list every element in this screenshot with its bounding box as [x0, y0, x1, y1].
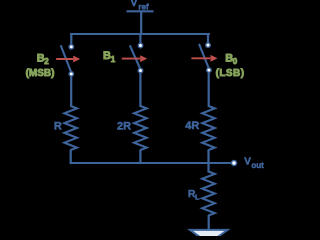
- switch S1 blade: [130, 45, 140, 68]
- label B2: [37, 52, 50, 66]
- wire output line: [70, 162, 231, 164]
- resistor 2R: [134, 106, 147, 150]
- switch S0 top contact: [206, 43, 210, 47]
- svg-text:0: 0: [233, 57, 238, 66]
- resistor R: [64, 106, 77, 150]
- wire rail stub to switch B1: [139, 33, 141, 43]
- wire resistor R to output line: [70, 150, 72, 165]
- switch S0 bottom contact: [207, 68, 211, 72]
- wire top rail: [70, 33, 210, 35]
- arrow S1 actuation: [122, 55, 147, 62]
- wire output line to resistor RL: [207, 162, 209, 172]
- svg-text:ref: ref: [138, 2, 149, 11]
- svg-text:4R: 4R: [185, 120, 199, 132]
- wire switch B2 to resistor R: [70, 76, 72, 107]
- svg-text:V: V: [244, 157, 251, 168]
- svg-text:L: L: [195, 193, 200, 202]
- svg-text:(LSB): (LSB): [216, 68, 245, 79]
- wire Vref bar to top rail: [140, 11, 142, 34]
- svg-text:B: B: [103, 50, 111, 62]
- svg-text:1: 1: [111, 55, 116, 64]
- wire switch B0 to resistor 4R: [208, 72, 210, 107]
- svg-text:(MSB): (MSB): [26, 68, 55, 79]
- svg-text:out: out: [251, 161, 264, 170]
- label B0: [225, 52, 238, 66]
- wire resistor RL to ground: [208, 215, 210, 231]
- label B1: [103, 50, 116, 64]
- switch S1 top contact: [138, 43, 142, 47]
- switch S2 blade: [61, 45, 71, 72]
- wire resistor 4R to output line: [207, 150, 209, 165]
- resistor 4R: [202, 106, 215, 150]
- svg-text:V: V: [131, 0, 138, 9]
- wire rail stub to switch B2: [70, 33, 72, 45]
- svg-text:2: 2: [44, 57, 49, 66]
- svg-text:2R: 2R: [117, 120, 131, 132]
- label Vout: [244, 157, 264, 171]
- switch S2 bottom contact: [69, 72, 73, 76]
- switch S2 top contact: [69, 45, 73, 49]
- svg-text:R: R: [54, 120, 62, 132]
- power rail bar Vref: [127, 10, 154, 12]
- wire resistor 2R to output line: [139, 150, 141, 165]
- label RL: [188, 188, 200, 201]
- switch S0 blade: [199, 44, 209, 68]
- node Vref label: [131, 0, 149, 11]
- wire switch B1 to resistor 2R: [139, 73, 141, 107]
- arrow S2 actuation: [56, 56, 80, 63]
- switch S1 bottom contact: [138, 68, 142, 72]
- wire rail stub to switch B0: [207, 33, 209, 43]
- ground: [190, 230, 228, 240]
- resistor RL: [202, 172, 215, 216]
- node Vout terminal: [232, 161, 237, 166]
- arrow S0 actuation: [191, 55, 217, 62]
